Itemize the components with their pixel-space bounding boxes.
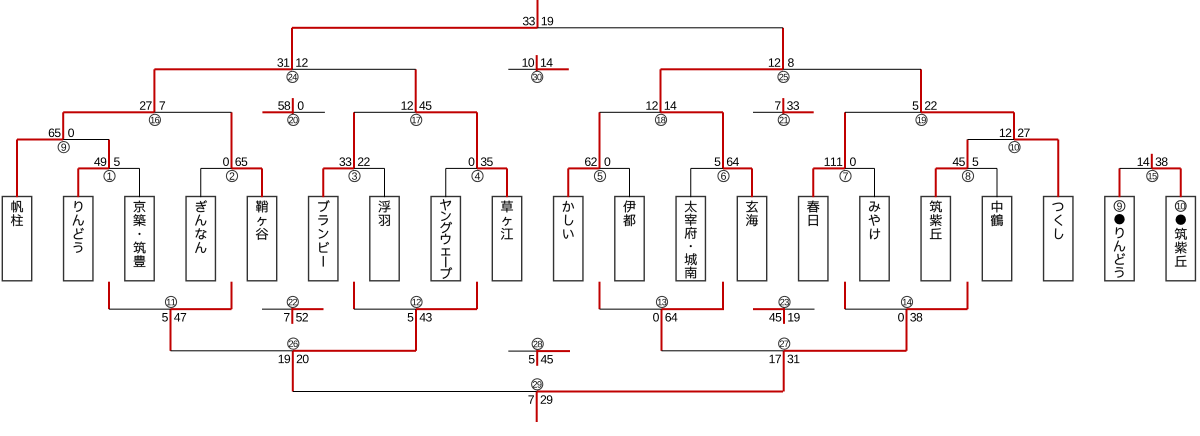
match 14 score 0-38 xyxy=(898,313,922,322)
wire: loser drop at x=354 xyxy=(353,282,355,309)
team name ブランビー xyxy=(318,200,329,266)
wire: box 玄海 to first match xyxy=(751,168,753,197)
team name ぎんなん xyxy=(195,200,207,253)
team name 帆柱 xyxy=(11,201,23,227)
match 7 score 111-0 xyxy=(825,157,856,166)
wire riser match5->18 xyxy=(599,112,601,168)
wire riser match18->25 xyxy=(660,69,662,112)
match 24 line xyxy=(154,68,292,70)
team name 浮羽 xyxy=(379,201,391,226)
wire: loser drop at x=477 xyxy=(476,282,478,309)
final match line xyxy=(292,27,538,29)
wire riser match10->19 xyxy=(1013,112,1015,139)
team name 草ヶ江 xyxy=(501,201,513,240)
wire drop 12->26 xyxy=(415,309,417,351)
team box 草ヶ江 xyxy=(492,197,521,281)
match 12 label circle xyxy=(411,296,422,307)
match 26 label circle xyxy=(288,338,299,349)
wire riser match7->19 xyxy=(844,112,846,168)
match 27 line xyxy=(662,350,784,351)
consolation match 23 line xyxy=(753,308,784,310)
wire drop 27->29 xyxy=(783,351,785,392)
match 5 score 62-0 xyxy=(585,157,610,166)
wire: box 草ヶ江 to first match xyxy=(506,168,508,197)
consolation match 21 score xyxy=(775,101,799,110)
wire: box ⑩●筑紫丘 to first match xyxy=(1180,168,1182,197)
wire riser match3->17 xyxy=(353,112,355,168)
match 9 score 65-0 xyxy=(49,128,74,137)
wire: loser drop at x=231.5 xyxy=(231,282,233,309)
match 1 line xyxy=(78,167,109,169)
consolation match 28 line xyxy=(508,351,537,352)
match 2 score 0-65 xyxy=(223,157,247,166)
match 5 label circle xyxy=(594,170,605,181)
team box 春日 xyxy=(799,197,828,281)
match 26 score 19-20 xyxy=(279,355,309,364)
match 15 label circle xyxy=(1147,170,1158,181)
wire: loser drop at x=967.5 xyxy=(967,282,969,309)
team name 伊都 xyxy=(623,200,635,226)
match 1 score 49-5 xyxy=(94,157,120,166)
match 24 label circle xyxy=(287,71,298,82)
team box つくし xyxy=(1044,197,1073,281)
wire riser match15 winner tick xyxy=(1151,154,1153,169)
consolation match 28 winner tick xyxy=(536,349,538,366)
consolation match 20 line xyxy=(262,111,292,113)
match 24 score 31-12 xyxy=(277,58,307,67)
team box ブランビー xyxy=(309,197,338,281)
match 11 line xyxy=(109,309,171,310)
final score 33-19 xyxy=(523,17,553,26)
team box 京築・筑豊 xyxy=(125,197,154,281)
match 10 score 12-27 xyxy=(1000,128,1030,137)
wire: box ヤングウェーブ to first match xyxy=(445,168,446,197)
wire drop 13->27 xyxy=(661,309,663,351)
team name 鞘ヶ谷 xyxy=(256,201,268,240)
wire: box 中鶴 to first match xyxy=(997,168,998,197)
match 11 label circle xyxy=(165,296,176,307)
wire: box りんどう to first match xyxy=(77,168,79,197)
match 18 label circle xyxy=(655,114,666,125)
match 17 label circle xyxy=(411,114,422,125)
consolation match 21 winner tick xyxy=(782,98,784,114)
team name かしい xyxy=(563,201,574,239)
wire riser match19->25 xyxy=(920,69,922,112)
team name つくし xyxy=(1052,203,1063,239)
wire: box 帆柱 to first match xyxy=(16,140,18,198)
wire drop 29 winner down xyxy=(536,392,538,423)
team box 玄海 xyxy=(737,197,766,281)
match 15 line xyxy=(1120,168,1152,169)
match 19 label circle xyxy=(916,114,927,125)
match 29 score 7-29 xyxy=(528,395,552,404)
wire: box ⑨●りんどう to first match xyxy=(1119,168,1121,197)
wire riser champion line xyxy=(537,0,539,28)
team box ヤングウェーブ xyxy=(431,197,460,281)
match 13 line xyxy=(600,309,662,310)
team box みやけ xyxy=(860,197,889,281)
consolation match 30 label circle xyxy=(532,71,543,82)
match 27 label circle xyxy=(779,338,790,349)
match 9 line xyxy=(17,139,63,141)
match 19 line xyxy=(845,112,921,113)
team name 京築・筑豊 xyxy=(133,201,145,267)
wire: box 鞘ヶ谷 to first match xyxy=(261,168,263,197)
consolation match 20 score xyxy=(278,101,303,110)
match 13 label circle xyxy=(656,296,667,307)
team box 伊都 xyxy=(615,197,644,281)
match 2 line xyxy=(201,168,232,169)
match 29 line xyxy=(293,391,537,392)
wire: loser drop at x=599.5 xyxy=(599,282,601,309)
consolation match 28 score xyxy=(529,355,553,364)
match 17 score 12-45 xyxy=(402,101,432,110)
match 27 score 17-31 xyxy=(770,355,800,364)
wire riser match9->16 xyxy=(62,112,64,139)
team name ⑨●りんどう xyxy=(1114,201,1125,278)
team name 中鶴 xyxy=(991,201,1003,227)
match 25 line xyxy=(661,68,784,70)
consolation match 21 line xyxy=(753,112,783,113)
consolation match 21 label circle xyxy=(778,114,789,125)
team box 中鶴 xyxy=(982,197,1011,281)
team box 筑紫丘 xyxy=(921,197,950,281)
match 14 label circle xyxy=(901,296,912,307)
consolation match 23 score xyxy=(769,313,800,322)
consolation match 23 label circle xyxy=(779,296,790,307)
match 16 label circle xyxy=(149,114,160,125)
wire: loser drop at x=109 xyxy=(108,282,110,309)
match 8 score 45-5 xyxy=(953,158,979,167)
consolation match 22 score xyxy=(284,313,308,322)
match 10 label circle xyxy=(1009,142,1020,153)
team box ⑩●筑紫丘 xyxy=(1166,197,1195,281)
match 3 line xyxy=(323,167,354,169)
team name 春日 xyxy=(807,201,819,226)
match 18 line xyxy=(600,112,661,113)
match 25 label circle xyxy=(778,71,789,82)
team box 太宰府・城南 xyxy=(676,197,705,281)
match 11 score 5-47 xyxy=(162,313,186,322)
match 7 label circle xyxy=(840,170,851,181)
wire drop 14->27 xyxy=(906,309,908,351)
team box 鞘ヶ谷 xyxy=(247,197,276,281)
wire: box 太宰府・城南 to first match xyxy=(690,168,691,197)
match 3 score 33-22 xyxy=(339,157,369,166)
match 16 line xyxy=(63,111,154,113)
wire: box 伊都 to first match xyxy=(629,168,630,197)
match 26 line xyxy=(171,350,293,351)
match 3 label circle xyxy=(349,170,360,181)
team box 浮羽 xyxy=(370,197,399,281)
match 7 line xyxy=(813,167,845,169)
consolation match 28 label circle xyxy=(532,338,543,349)
team name ⑩●筑紫丘 xyxy=(1175,201,1187,267)
match 9 label circle xyxy=(58,142,69,153)
match 6 line xyxy=(691,168,723,169)
wire drop 26->29 xyxy=(292,351,294,392)
wire riser match1->9 xyxy=(108,140,110,169)
consolation match 30 score xyxy=(523,58,553,67)
match 4 score 0-35 xyxy=(469,157,493,166)
wire riser match2->16 xyxy=(231,112,233,168)
consolation match 20 label circle xyxy=(288,114,299,125)
consolation match 22 line xyxy=(262,309,292,310)
match 6 score 5-64 xyxy=(715,157,739,166)
match 12 score 5-43 xyxy=(408,313,432,322)
match 1 label circle xyxy=(104,170,115,181)
team name 太宰府・城南 xyxy=(685,201,697,279)
wire riser match16->24 xyxy=(153,69,155,112)
match 12 line xyxy=(354,309,416,310)
wire: box 春日 to first match xyxy=(812,168,814,197)
team name 玄海 xyxy=(746,201,758,226)
wire riser match25->final xyxy=(782,28,784,70)
wire: box ぎんなん to first match xyxy=(200,168,201,197)
wire riser match6->18 xyxy=(722,112,724,168)
match 5 line xyxy=(568,167,599,169)
match 8 line xyxy=(936,167,968,169)
wire: box みやけ to first match xyxy=(874,168,875,197)
wire: box かしい to first match xyxy=(567,168,569,197)
wire riser match17->24 xyxy=(415,69,417,112)
wire riser match24->final xyxy=(291,28,293,70)
match 2 label circle xyxy=(226,170,237,181)
wire: box つくし to first match xyxy=(1057,140,1059,198)
match 14 line xyxy=(845,309,907,310)
team box かしい xyxy=(554,197,583,281)
match 4 line xyxy=(446,168,477,169)
team name 筑紫丘 xyxy=(930,200,942,239)
consolation match 23 winner tick xyxy=(783,307,785,324)
team box りんどう xyxy=(64,197,93,281)
consolation match 22 winner tick xyxy=(291,307,293,324)
wire riser match8->10 xyxy=(967,140,969,169)
consolation match 22 label circle xyxy=(287,296,298,307)
team name りんどう xyxy=(73,201,84,253)
match 15 score 14-38 xyxy=(1138,157,1168,166)
match 8 label circle xyxy=(962,170,973,181)
match 4 label circle xyxy=(472,170,483,181)
match 19 score 5-22 xyxy=(913,101,937,110)
match 16 score 27-7 xyxy=(140,101,165,110)
consolation match 30 winner tick xyxy=(536,55,538,71)
team box ⑨●りんどう xyxy=(1105,197,1134,281)
match 25 score 12-8 xyxy=(769,58,794,67)
team box 帆柱 xyxy=(2,197,31,281)
wire riser match4->17 xyxy=(476,112,478,168)
wire: box ブランビー to first match xyxy=(322,168,324,197)
consolation match 30 line xyxy=(508,69,536,70)
wire: box 京築・筑豊 to first match xyxy=(139,168,140,197)
consolation match 20 winner tick xyxy=(292,98,294,114)
match 18 score 12-14 xyxy=(646,101,676,110)
match 10 line xyxy=(968,139,1015,140)
match 13 score 0-64 xyxy=(653,313,677,322)
match 29 label circle xyxy=(532,379,543,390)
match 17 line xyxy=(354,112,416,113)
team name ヤングウェーブ xyxy=(440,199,452,279)
wire: loser drop at x=723 xyxy=(722,282,724,309)
team name みやけ xyxy=(869,202,880,240)
wire: box 筑紫丘 to first match xyxy=(935,168,937,197)
team box ぎんなん xyxy=(186,197,215,281)
wire: box 浮羽 to first match xyxy=(384,168,385,197)
wire drop 11->26 xyxy=(170,309,172,351)
match 6 label circle xyxy=(718,170,729,181)
wire: loser drop at x=845 xyxy=(844,282,846,309)
